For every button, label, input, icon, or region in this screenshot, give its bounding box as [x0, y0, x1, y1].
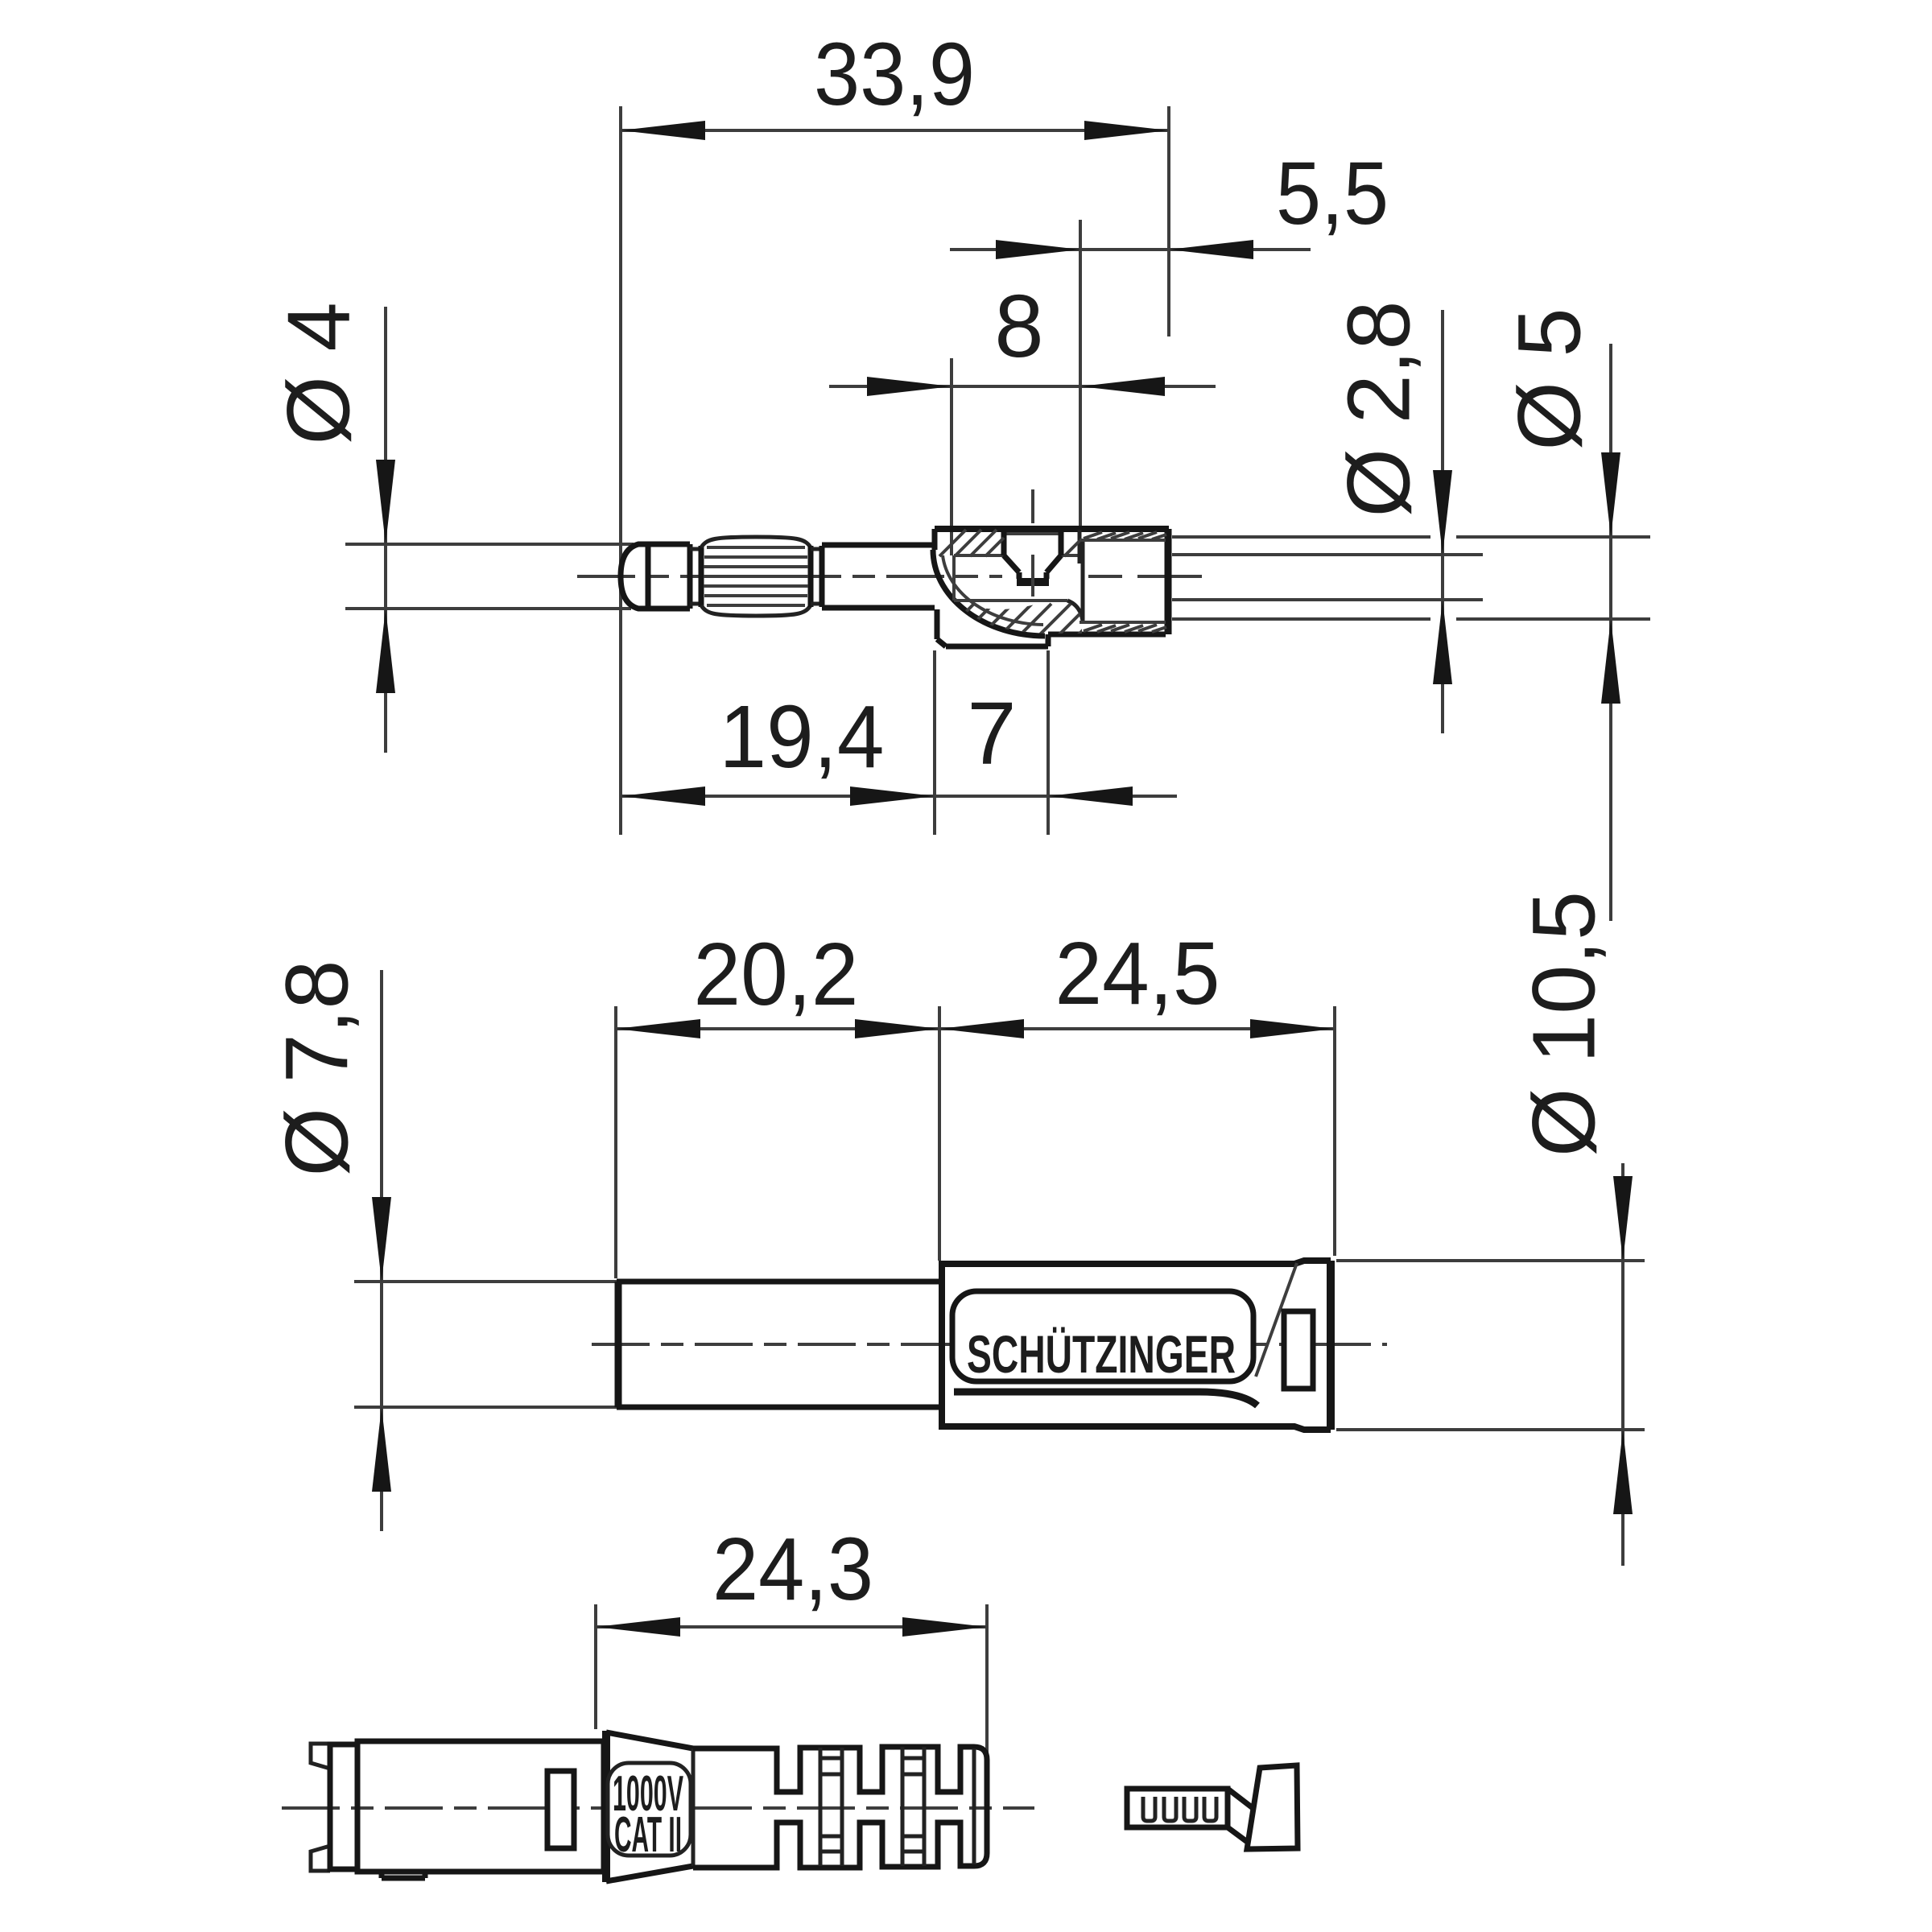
svg-text:SCHÜTZINGER: SCHÜTZINGER [967, 1324, 1236, 1384]
svg-text:24,5: 24,5 [1055, 924, 1220, 1023]
svg-text:Ø 4: Ø 4 [270, 302, 369, 444]
svg-text:20,2: 20,2 [694, 925, 859, 1024]
svg-text:Ø 2,8: Ø 2,8 [1330, 300, 1429, 517]
svg-text:8: 8 [994, 277, 1043, 376]
svg-text:Ø 10,5: Ø 10,5 [1515, 891, 1614, 1157]
svg-text:7: 7 [967, 684, 1016, 783]
svg-text:24,3: 24,3 [712, 1520, 873, 1619]
svg-text:Ø 5: Ø 5 [1501, 308, 1600, 450]
svg-text:33,9: 33,9 [814, 25, 975, 124]
svg-text:CAT II: CAT II [614, 1807, 682, 1863]
svg-text:19,4: 19,4 [720, 687, 885, 786]
svg-text:Ø 7,8: Ø 7,8 [268, 960, 367, 1176]
svg-text:5,5: 5,5 [1276, 144, 1389, 243]
